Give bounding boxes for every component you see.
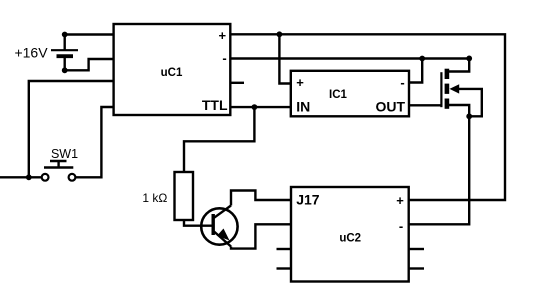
node Q2 drain junction: [466, 56, 472, 62]
transistor Q1: [201, 206, 237, 247]
wire battery+ to uC1: [65, 33, 114, 35]
IC1 pin + label: [296, 75, 304, 90]
wire Q1 collector to J17: [231, 191, 291, 206]
node Q2 source-body junction: [466, 113, 472, 119]
svg-text:IN: IN: [296, 98, 310, 114]
svg-text:uC2: uC2: [339, 232, 361, 244]
wire battery- to uC1: [65, 59, 114, 70]
svg-text:+: +: [396, 193, 404, 208]
J17 pin + label: [396, 193, 404, 208]
resistor R1 value 1 kOhm: [142, 191, 167, 205]
J17 right stub pin 2: [409, 267, 424, 269]
switch SW1 label: [51, 147, 78, 161]
wire uC1 + rail to J17 + pin: [230, 34, 505, 200]
svg-text:-: -: [222, 51, 226, 66]
IC1 pin IN label: [296, 98, 310, 114]
node - rail branch: [419, 56, 425, 62]
node + rail branch: [277, 31, 283, 37]
uC1 U1: [114, 24, 231, 115]
wire Q1 emitter to J17: [231, 224, 291, 248]
svg-text:uC1: uC1: [161, 67, 183, 79]
wire resistor R1 to Q1 base: [184, 220, 213, 226]
svg-text:OUT: OUT: [375, 98, 405, 114]
wire Q2 source to J17 - pin: [409, 105, 470, 224]
wire SW1 right to uC1: [75, 107, 113, 177]
J17 label: [296, 191, 320, 207]
svg-text:1 kΩ: 1 kΩ: [142, 191, 167, 205]
uC2 label: [339, 232, 361, 244]
J17 left stub pin 1: [277, 248, 292, 250]
svg-text:+: +: [296, 75, 304, 90]
IC1 pin OUT label: [375, 98, 405, 114]
J17 pin - label: [399, 219, 403, 234]
svg-text:+16V: +16V: [14, 44, 48, 60]
wire - rail to IC1 - pin: [409, 59, 422, 83]
uC1 pin + label: [219, 28, 227, 43]
IC1 pin - label: [400, 75, 404, 90]
wire SW1 left to uC1: [0, 81, 114, 177]
IC1 label: [329, 89, 348, 101]
IC1 U2: [291, 71, 409, 117]
switch SW1: [42, 161, 76, 181]
svg-text:TTL: TTL: [202, 97, 228, 113]
node SW1 left junction: [26, 174, 32, 180]
battery label +16V: [14, 44, 48, 60]
uC1 right stub pin: [230, 82, 244, 84]
resistor R1: [175, 172, 194, 220]
J17 left stub pin 2: [277, 267, 292, 269]
svg-text:-: -: [400, 75, 404, 90]
connector J17 / uC2: [291, 187, 409, 282]
uC1 label: [161, 67, 183, 79]
svg-text:IC1: IC1: [329, 89, 348, 101]
wire uC1 - rail to MOSFET drain: [230, 57, 469, 59]
J17 right stub pin 1: [409, 248, 424, 250]
svg-text:SW1: SW1: [51, 147, 78, 161]
wire IC1 OUT to Q2 gate: [409, 104, 441, 106]
wire uC1 TTL to IC1 IN: [230, 106, 290, 108]
svg-text:-: -: [399, 219, 403, 234]
svg-text:J17: J17: [296, 191, 320, 207]
wire TTL junction to resistor R1: [184, 107, 254, 172]
MOSFET Q2: [441, 58, 481, 116]
uC1 pin TTL label: [202, 97, 228, 113]
uC1 pin - label: [222, 51, 226, 66]
battery B1: [51, 32, 78, 74]
wire + rail to IC1 + pin: [279, 34, 290, 83]
node TTL junction: [252, 104, 258, 110]
svg-text:+: +: [219, 28, 227, 43]
